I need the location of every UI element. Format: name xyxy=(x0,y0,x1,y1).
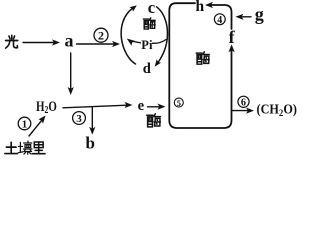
svg-text:6: 6 xyxy=(241,98,246,109)
arrow a→cycle (step 2) xyxy=(77,41,121,47)
svg-text:4: 4 xyxy=(217,15,222,26)
svg-text:5: 5 xyxy=(177,98,182,108)
arrowhead right edge ↑f xyxy=(229,44,235,52)
arrow soil→H2O (step 1) xyxy=(29,116,46,137)
circled 3 xyxy=(73,112,86,126)
arrow a→down xyxy=(68,53,74,95)
arrow 光→a xyxy=(23,39,60,45)
svg-text:Pi: Pi xyxy=(141,38,153,52)
svg-text:b: b xyxy=(86,134,95,153)
circled 1 xyxy=(18,117,31,131)
circled 4 xyxy=(214,14,225,26)
svg-text:d: d xyxy=(143,61,151,77)
arrow e→box (step 5) xyxy=(148,104,166,110)
circled 2 xyxy=(94,28,108,42)
arrow Pi→left-arc xyxy=(127,39,141,46)
big rounded box (dark reaction cycle), gaps at h and f xyxy=(169,3,231,128)
enzyme label (e) xyxy=(147,114,161,127)
svg-text:h: h xyxy=(196,0,205,15)
wire H2O→e xyxy=(63,102,133,108)
connector Pi→right-arc xyxy=(153,40,167,44)
right arc arrow (c→d) xyxy=(155,7,168,67)
svg-text:a: a xyxy=(65,31,74,51)
label 土壤里 xyxy=(5,142,18,153)
wire branch →b (step 3) xyxy=(89,107,95,135)
label H2O xyxy=(36,99,57,116)
svg-text:H2O: H2O xyxy=(36,99,57,116)
svg-text:e: e xyxy=(138,98,145,114)
svg-text:g: g xyxy=(255,4,264,24)
svg-text:(CH2O): (CH2O) xyxy=(257,101,297,119)
enzyme label (box) xyxy=(196,52,209,64)
circled 5 xyxy=(174,98,183,108)
svg-text:c: c xyxy=(148,0,155,17)
svg-text:1: 1 xyxy=(22,119,28,131)
svg-text:2: 2 xyxy=(98,29,104,43)
arrowhead top edge →h xyxy=(205,2,213,8)
circled 6 xyxy=(238,96,249,108)
left arc arrow (d→c) xyxy=(121,5,137,64)
svg-text:f: f xyxy=(229,27,236,47)
arrow box→(CH2O) (step 6) xyxy=(232,108,254,114)
arrow g→box xyxy=(236,14,252,20)
enzyme label (cycle) xyxy=(143,18,155,29)
label (CH2O) xyxy=(257,101,297,119)
label 光 xyxy=(6,35,18,48)
svg-text:3: 3 xyxy=(76,113,82,125)
